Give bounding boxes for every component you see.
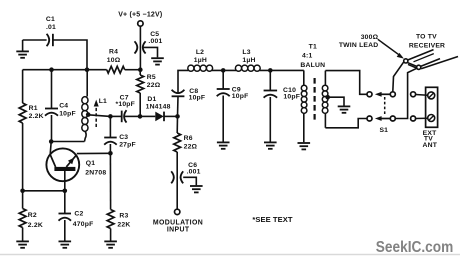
transformer T1 core [314, 78, 316, 121]
resistor R1 [19, 103, 44, 123]
switch S1 pole (upper) [375, 92, 395, 97]
wire (V+ down to rail) [139, 26, 141, 69]
modulation input terminal [153, 209, 203, 233]
resistor R4 [107, 48, 125, 73]
svg-text:BALUN: BALUN [300, 62, 325, 69]
svg-text:T1: T1 [309, 43, 317, 50]
L1 tuning arrow [94, 100, 99, 127]
node (L1 top junction) [85, 67, 90, 72]
capacitor C4 [45, 102, 76, 117]
capacitor C8 [172, 88, 206, 102]
wire (C1 to bias rail) [53, 40, 87, 70]
wire (L2 to L3) [212, 69, 236, 71]
svg-text:TWIN LEAD: TWIN LEAD [339, 42, 379, 49]
svg-text:R1: R1 [29, 105, 38, 112]
svg-text:R6: R6 [184, 135, 193, 142]
svg-text:2.2K: 2.2K [29, 113, 44, 120]
wire (R5 leads) [139, 70, 141, 117]
inductor L3 [235, 49, 260, 71]
svg-text:R4: R4 [109, 48, 118, 55]
switch S1 gang link [379, 97, 388, 134]
capacitor C9 [217, 86, 249, 100]
ground (C1 left) [16, 40, 29, 58]
ext antenna contact (lower) [411, 116, 428, 121]
wire (emitter to junction) [77, 152, 111, 154]
note see text [252, 215, 292, 224]
svg-text:300Ω: 300Ω [361, 34, 379, 41]
wire (R1 to base node) [22, 123, 24, 191]
T1 labels [300, 43, 325, 69]
svg-text:22K: 22K [117, 222, 130, 229]
svg-text:4:1: 4:1 [302, 53, 312, 60]
capacitor C5 [135, 31, 163, 54]
twin lead pointer arrow [378, 39, 404, 58]
transistor Q1 2N708 [46, 148, 106, 181]
wire (C9 leads) [222, 70, 224, 141]
svg-text:Q1: Q1 [86, 160, 95, 167]
svg-text:C5: C5 [150, 31, 159, 38]
svg-text:R2: R2 [28, 212, 37, 219]
svg-text:C4: C4 [59, 102, 68, 109]
svg-text:TO TV: TO TV [416, 33, 437, 40]
node (R5 bottom junction) [138, 114, 143, 119]
wire (C2 leads) [64, 191, 66, 241]
node (C3 top junction) [108, 114, 113, 119]
wire (tank to collector) [50, 142, 84, 155]
svg-text:L2: L2 [196, 49, 204, 56]
switch S1 pole (lower) [375, 116, 395, 121]
ground (C10) [264, 142, 277, 148]
svg-text:22Ω: 22Ω [184, 144, 198, 151]
svg-text:10pF: 10pF [283, 94, 300, 101]
svg-text:10pF: 10pF [232, 93, 249, 100]
svg-text:SeekIC.com: SeekIC.com [376, 239, 454, 256]
svg-text:1N4148: 1N4148 [146, 103, 171, 110]
svg-text:RECEIVER: RECEIVER [409, 42, 445, 49]
wire (bias rail) [23, 69, 141, 71]
switch S1 contact (lower left) [367, 116, 372, 121]
svg-text:10pF: 10pF [59, 110, 76, 117]
capacitor C1 [46, 16, 56, 46]
svg-text:C3: C3 [119, 134, 128, 141]
wire (L3 to balun) [260, 69, 304, 71]
wire (tap to ground) [328, 97, 344, 105]
svg-text:ANT: ANT [423, 142, 438, 149]
inductor L1 [82, 70, 107, 142]
capacitor C2 [59, 211, 94, 229]
node (C9 junction) [221, 68, 226, 73]
transformer T1 secondary winding [322, 71, 328, 128]
ground (T1 center tap) [338, 106, 351, 112]
ground (R2) [16, 241, 29, 247]
wire (L1 tap to C7) [88, 115, 110, 117]
resistor R2 [19, 209, 43, 230]
svg-text:1µH: 1µH [242, 57, 255, 64]
svg-text:470pF: 470pF [73, 221, 94, 228]
ground (C6) [190, 186, 203, 192]
svg-text:27pF: 27pF [119, 142, 136, 149]
node (V+ rail junction) [138, 67, 143, 72]
scan artifact line [0, 254, 460, 256]
resistor R6 [174, 133, 198, 152]
node (secondary center tap) [325, 95, 330, 100]
node (base junction) [63, 189, 68, 194]
svg-text:22Ω: 22Ω [147, 82, 161, 89]
wire (base lead) [64, 171, 66, 191]
ground (C9) [217, 142, 230, 148]
svg-text:.001: .001 [187, 169, 201, 176]
wire (R3 leads) [109, 153, 111, 240]
node (C4 top junction) [49, 67, 54, 72]
diode D1 1N4148 [140, 96, 178, 121]
wire (C6 to ground) [183, 177, 196, 185]
wire (C3 leads) [109, 116, 111, 153]
wire (C7 to D1 node) [124, 115, 140, 117]
svg-text:2N708: 2N708 [85, 169, 106, 176]
capacitor C3 [104, 134, 136, 148]
transformer T1 primary winding [301, 70, 307, 142]
wire (C4 leads) [51, 70, 53, 142]
node (C10 junction) [268, 68, 273, 73]
svg-text:D1: D1 [147, 96, 156, 103]
node (D1 output junction) [175, 114, 180, 119]
wire (R2 leads) [22, 191, 24, 241]
ext antenna contact (upper) [411, 92, 428, 97]
svg-text:10pF: 10pF [189, 95, 206, 102]
capacitor C6 [171, 162, 200, 184]
wire (C10 leads) [269, 70, 271, 141]
wire (secondary top to switch) [325, 71, 367, 95]
svg-text:S1: S1 [379, 127, 388, 134]
inductor L2 [188, 49, 213, 71]
wire (upper pole to twin lead) [393, 62, 404, 92]
svg-text:R3: R3 [119, 213, 128, 220]
svg-text:V+ (+5 −12V): V+ (+5 −12V) [118, 12, 162, 19]
svg-text:R5: R5 [147, 74, 156, 81]
svg-text:.01: .01 [46, 24, 56, 31]
wire (R6 leads) [176, 116, 178, 209]
node (R1 R2 base junction) [20, 189, 25, 194]
wire (ground to C1) [23, 39, 47, 41]
watermark SeekIC.com [376, 239, 454, 256]
label to TV receiver [409, 33, 445, 49]
wire (C5 to ground) [143, 47, 158, 57]
wire (C8 leads) [178, 70, 189, 116]
capacitor C7 [110, 94, 135, 122]
wire (rail to R1) [22, 70, 24, 103]
wire (secondary bottom to switch) [325, 119, 367, 128]
capacitor C10 [264, 87, 300, 100]
ground (T1 primary) [298, 143, 311, 149]
resistor R5 [137, 74, 161, 93]
resistor R3 [107, 210, 130, 229]
node (emitter junction) [108, 151, 113, 156]
svg-text:L3: L3 [242, 49, 250, 56]
300 ohm twin lead [404, 50, 458, 70]
svg-text:L1: L1 [99, 98, 107, 105]
svg-text:10Ω: 10Ω [107, 57, 121, 64]
ground (C2) [59, 241, 72, 247]
svg-text:2.2K: 2.2K [28, 222, 43, 229]
label 300 ohm twin lead [339, 34, 379, 49]
V+ terminal [118, 12, 162, 27]
svg-text:C1: C1 [46, 16, 55, 23]
node (L1 tap) [86, 112, 91, 117]
svg-text:C2: C2 [74, 211, 83, 218]
switch S1 contact (upper left) [367, 92, 372, 97]
svg-text:.001: .001 [148, 38, 162, 45]
wire (base row) [23, 190, 65, 192]
ground (C5) [151, 58, 164, 64]
svg-text:*SEE TEXT: *SEE TEXT [252, 215, 292, 224]
node (collector junction) [49, 139, 54, 144]
ground (R3) [104, 241, 117, 247]
svg-text:1µH: 1µH [194, 57, 207, 64]
wire (lower pole to twin lead) [395, 68, 417, 118]
svg-text:INPUT: INPUT [167, 226, 190, 233]
EXT TV ANT terminal block [423, 87, 438, 149]
svg-text:*10pF: *10pF [116, 101, 136, 108]
